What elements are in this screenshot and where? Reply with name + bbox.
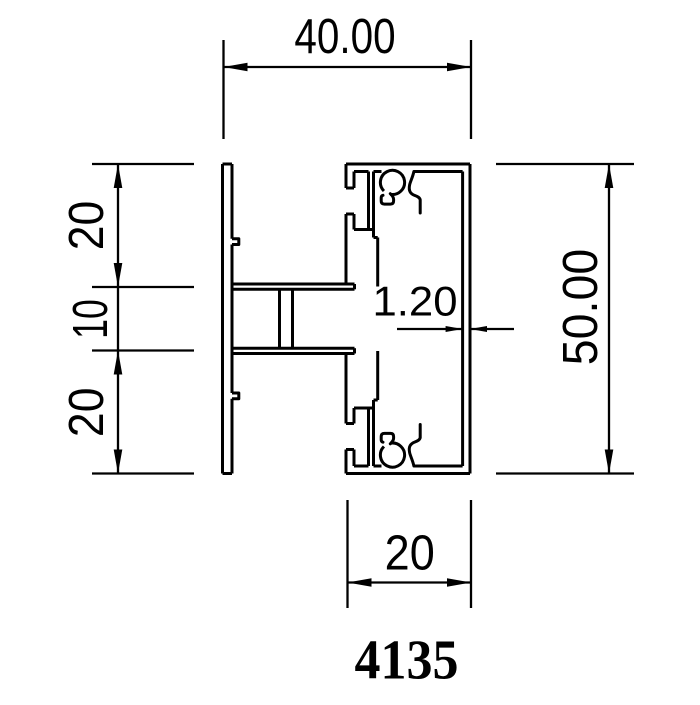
profile upper half: [223, 164, 471, 289]
dim 20 bottom left extension line: [346, 500, 348, 608]
arrowhead 40.00 right: [447, 63, 471, 72]
svg-text:20: 20: [58, 201, 114, 251]
left fin lower notch: [232, 393, 239, 399]
arrowhead 40.00 left: [224, 63, 248, 72]
arrowhead 20 bottom right: [447, 578, 471, 587]
left fin outer wall: [221, 164, 224, 474]
H web right wall: [291, 289, 294, 348]
dim 50.00 top extension line: [496, 163, 634, 165]
left extension line at y=473.5: [92, 472, 194, 474]
svg-text:50.00: 50.00: [554, 249, 609, 365]
arrowhead 20 bottom left: [348, 578, 372, 587]
left dimension line: [117, 164, 119, 474]
dim 40.00 left extension line: [222, 40, 224, 139]
dim 1.20 left leader line: [397, 328, 463, 330]
box right wall outer: [469, 164, 472, 474]
svg-text:1.20: 1.20: [373, 278, 458, 325]
arrowhead left dim down at 473.5: [114, 450, 123, 474]
svg-text:4135: 4135: [355, 629, 459, 691]
dim 20 bottom right extension line: [470, 500, 472, 608]
dim 40.00 dimension line: [224, 66, 472, 68]
svg-text:40.00: 40.00: [294, 8, 395, 64]
svg-text:10: 10: [63, 299, 118, 339]
arrowhead left dim up at 350.5: [114, 351, 123, 375]
left fin inner wall middle segment: [231, 245, 234, 394]
svg-text:20: 20: [385, 526, 435, 581]
arrowhead 1.20 pointing left: [470, 326, 487, 332]
profile lower half (mirrored): [223, 348, 471, 473]
left fin upper notch: [232, 239, 239, 245]
left fin inner wall lower segment: [231, 399, 234, 474]
arrowhead left dim down at 287: [114, 263, 123, 287]
svg-text:20: 20: [58, 388, 114, 438]
dim 20 bottom dimension line: [348, 581, 472, 583]
left extension line at y=350.5: [92, 349, 194, 351]
dim 40.00 right extension line: [470, 40, 472, 139]
arrowhead 1.20 pointing right: [446, 326, 463, 332]
dim 1.20 right leader line: [470, 328, 514, 330]
box right wall inner: [461, 172, 464, 467]
dim 50.00 bottom extension line: [496, 472, 634, 474]
dim 50.00 dimension line: [608, 164, 610, 474]
left extension line at y=164: [92, 163, 194, 165]
arrowhead 50.00 down: [605, 450, 614, 474]
arrowhead left dim up at 164: [114, 164, 123, 188]
left extension line at y=287: [92, 286, 194, 288]
left fin inner wall upper segment: [231, 164, 234, 239]
H web left wall: [278, 289, 281, 348]
arrowhead 50.00 up: [605, 164, 614, 188]
